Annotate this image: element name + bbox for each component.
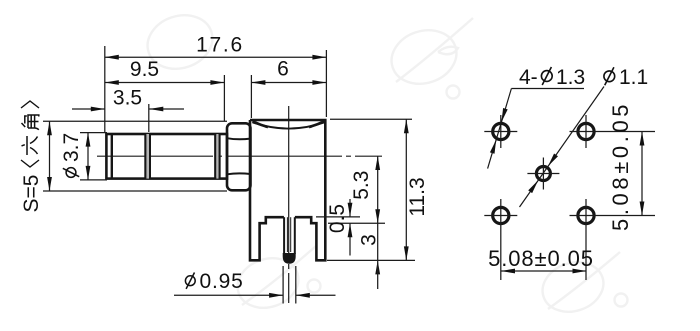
- svg-text:17.6: 17.6: [196, 34, 244, 57]
- dimension phi 3.7: [80, 133, 107, 180]
- svg-text:5.08±0.05: 5.08±0.05: [608, 101, 633, 231]
- groove 1 gray band: [146, 134, 149, 179]
- hex face line upper: [227, 138, 251, 139]
- hole bottom-left: [493, 207, 509, 223]
- groove 2 gray band: [216, 134, 218, 179]
- groove 2 line right: [219, 134, 221, 179]
- svg-text:S=5: S=5: [20, 175, 43, 213]
- center pin outer left: [283, 217, 285, 254]
- svg-text:3.7: 3.7: [60, 133, 83, 162]
- hex nut outline: [227, 123, 251, 190]
- leader 4-phi1.3: [488, 89, 584, 169]
- watermark: [141, 7, 628, 319]
- center pin inner right: [290, 217, 292, 252]
- dimension 5.3: [377, 156, 379, 260]
- center pin outer right: [294, 217, 296, 254]
- hole top-left: [493, 123, 509, 139]
- svg-text:3.5: 3.5: [113, 87, 142, 110]
- svg-text:0.95: 0.95: [200, 270, 244, 293]
- svg-text:6: 6: [277, 58, 289, 81]
- groove 2 line left: [214, 134, 216, 179]
- svg-text:1.3: 1.3: [556, 66, 585, 89]
- svg-text:4-: 4-: [519, 66, 538, 89]
- hex face line lower: [227, 172, 251, 175]
- svg-text:9.5: 9.5: [130, 58, 159, 81]
- dimension 5.08 vertical: [641, 132, 643, 216]
- cylinder cap line: [111, 134, 113, 179]
- hole bottom-right: [578, 207, 594, 223]
- dimension 0.5: [316, 199, 385, 256]
- svg-text:1.1: 1.1: [619, 66, 648, 89]
- svg-text:0.5: 0.5: [326, 204, 349, 233]
- dimension phi 0.95: [174, 266, 336, 304]
- dimension 11.3: [327, 119, 415, 260]
- svg-text:5.08±0.05: 5.08±0.05: [488, 246, 594, 271]
- dimension 3: [375, 260, 380, 274]
- svg-text:11.3: 11.3: [406, 177, 429, 216]
- dimension 6: [251, 75, 326, 118]
- groove line right: [149, 134, 151, 179]
- svg-text:3: 3: [358, 234, 381, 246]
- hole top-right: [578, 123, 594, 139]
- dimension 9.5: [105, 75, 225, 121]
- dimension 17.6: [105, 46, 327, 133]
- centerline axis vertical: [288, 106, 290, 303]
- leader phi1.1: [520, 87, 605, 208]
- centerline axis horizontal: [97, 155, 382, 157]
- dimension 3.5: [72, 104, 184, 132]
- body crown arc: [253, 122, 325, 128]
- center pin tip: [283, 253, 296, 264]
- svg-text:5.3: 5.3: [350, 171, 373, 200]
- cylinder body outline: [106, 134, 227, 179]
- groove line left: [144, 134, 146, 179]
- main body with legs outline: [250, 120, 325, 260]
- hole center: [536, 167, 550, 181]
- center pin inner left: [286, 217, 288, 252]
- dimension S=5 hex: [43, 121, 227, 191]
- dimension 5.08 horizontal: [501, 270, 587, 272]
